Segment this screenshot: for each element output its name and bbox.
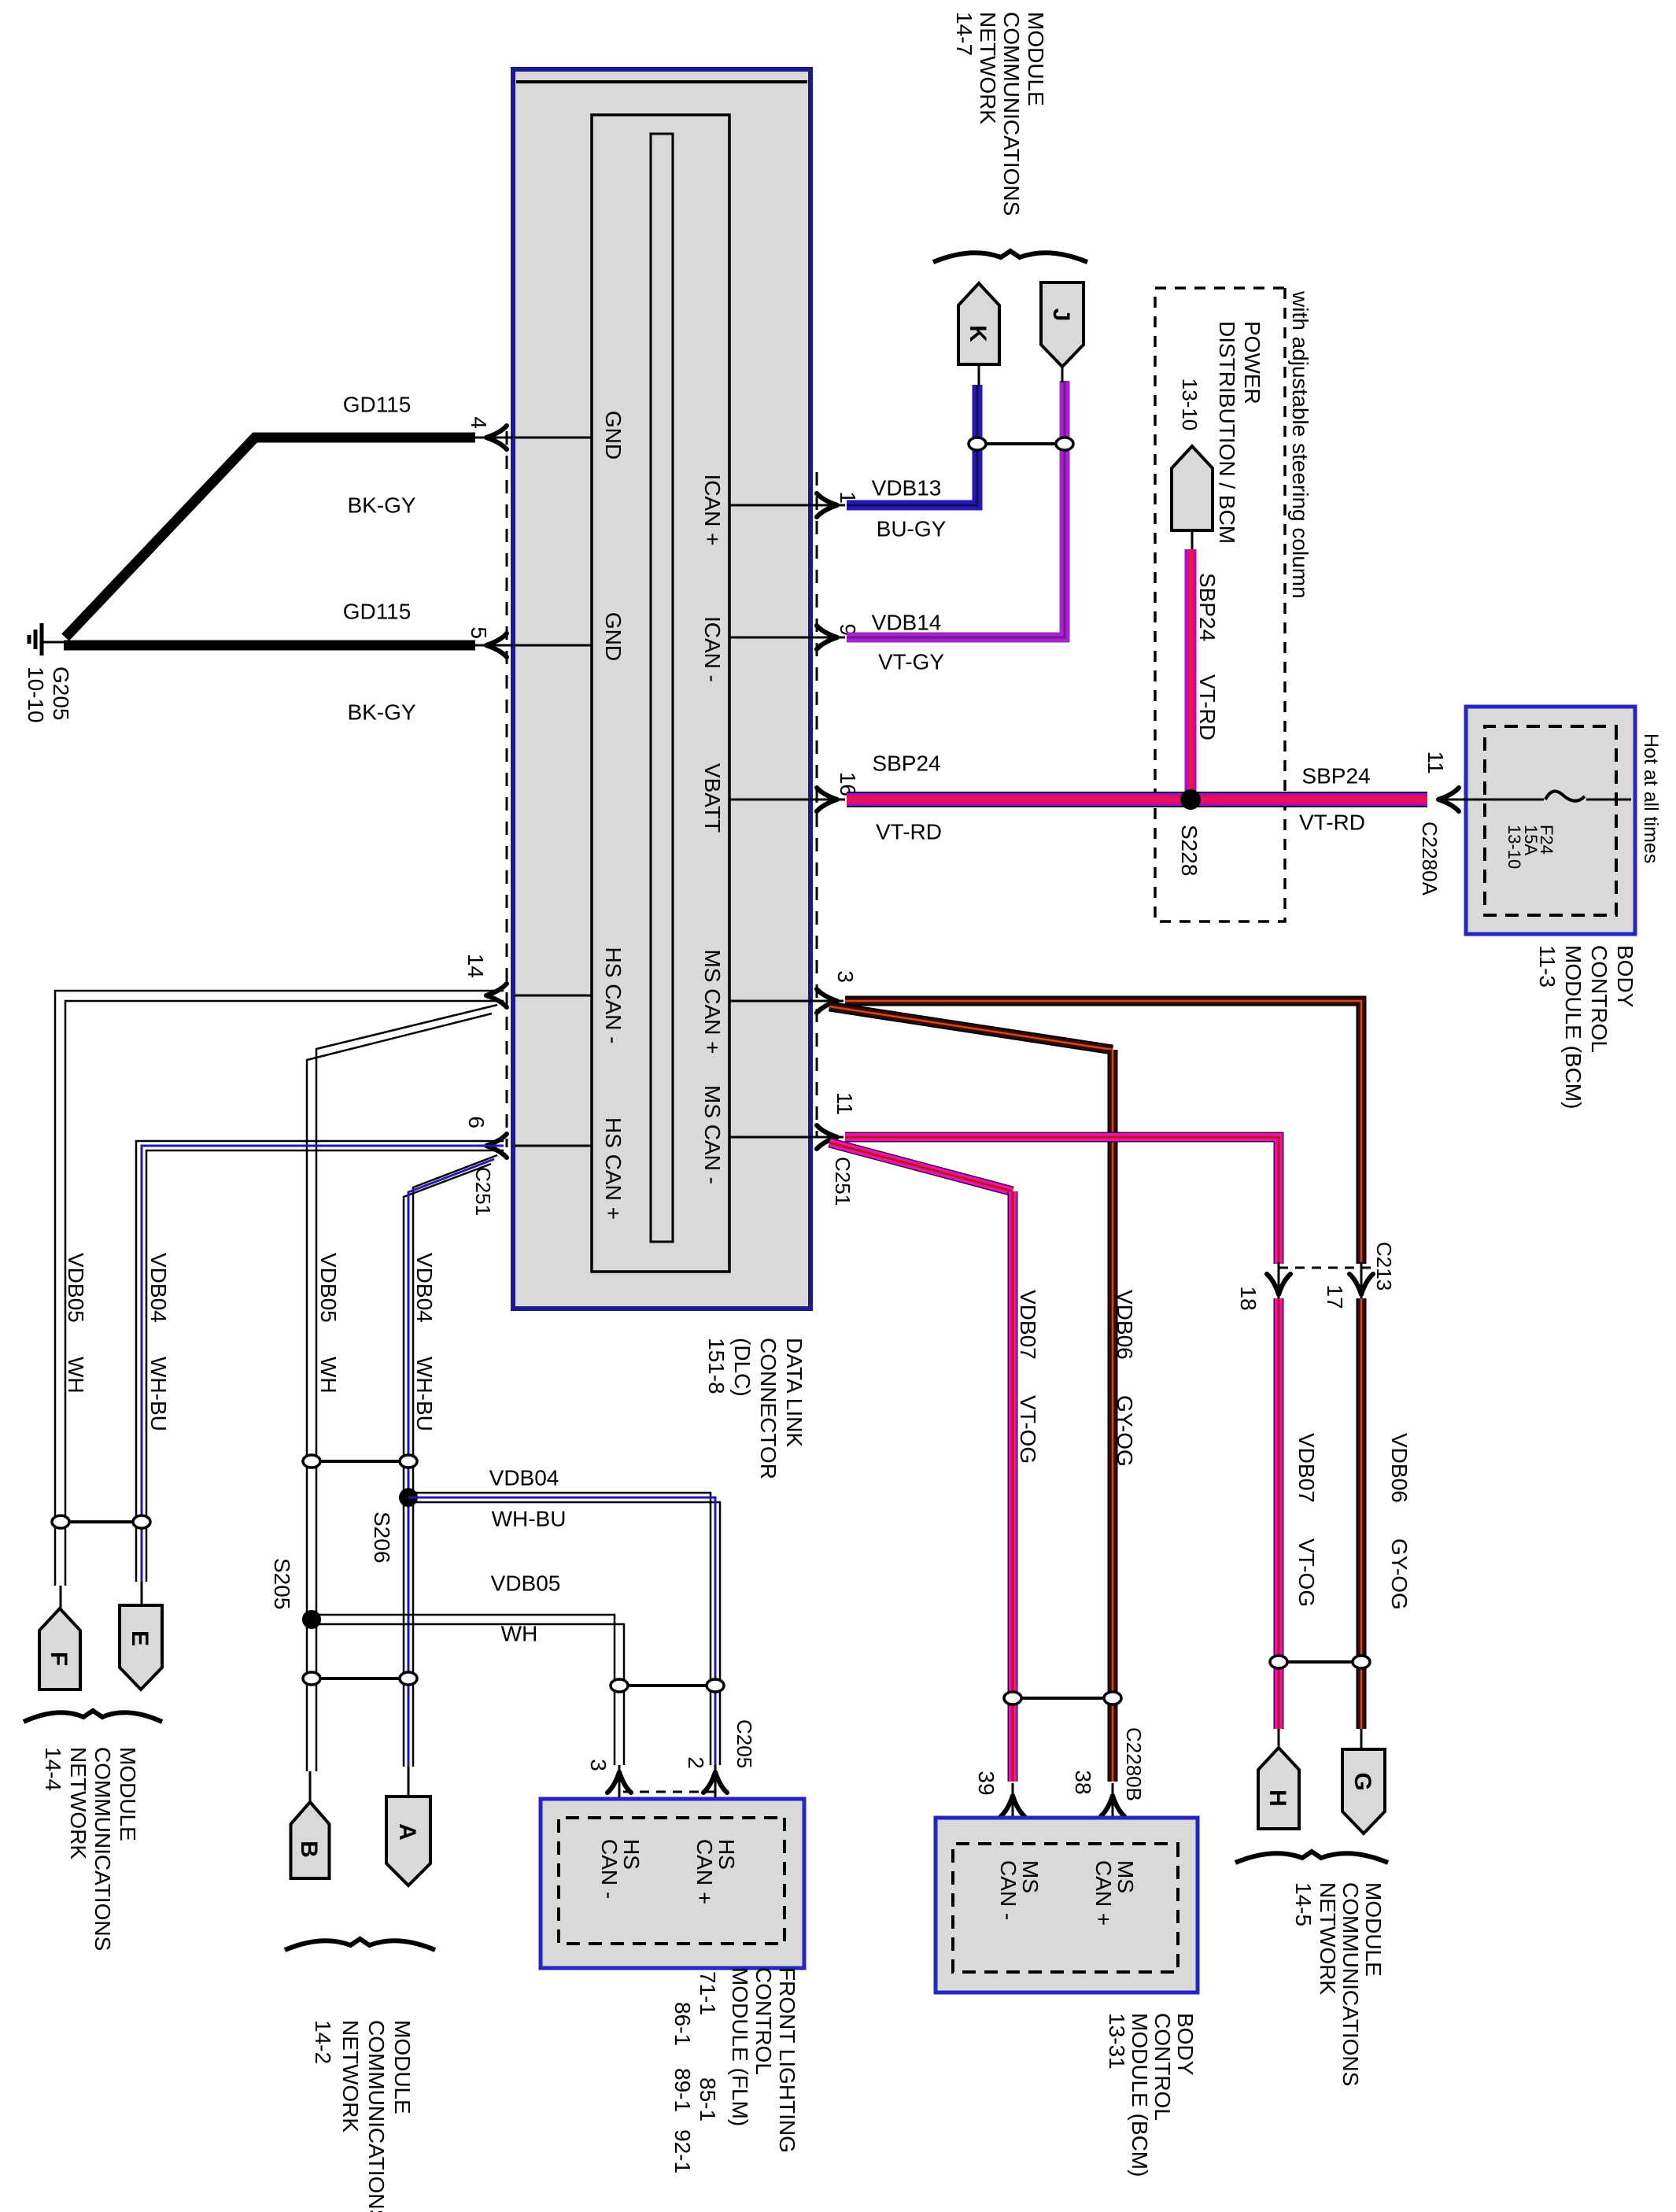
svg-text:14-4: 14-4: [41, 1747, 65, 1791]
module communications network 14-4 label: [41, 1747, 140, 1951]
svg-text:HS: HS: [619, 1839, 644, 1870]
power distribution dashed box: [1155, 288, 1285, 921]
svg-text:GND: GND: [601, 612, 626, 661]
pin number 5: [467, 626, 491, 639]
connector K: [958, 283, 999, 364]
svg-text:VDB05: VDB05: [316, 1253, 341, 1323]
svg-text:POWER: POWER: [1240, 321, 1264, 404]
DLC name label: [704, 1338, 807, 1479]
continuation brace (K/J): [933, 251, 1087, 262]
svg-text:VDB13: VDB13: [872, 475, 942, 500]
svg-text:MS CAN -: MS CAN -: [700, 1085, 725, 1184]
svg-text:S228: S228: [1177, 825, 1202, 876]
svg-text:WH-BU: WH-BU: [492, 1506, 567, 1531]
pin number 38: [1071, 1770, 1095, 1794]
arrow at C2280A: [1438, 788, 1459, 811]
svg-text:MODULE: MODULE: [116, 1747, 140, 1841]
svg-text:WH-BU: WH-BU: [146, 1357, 171, 1431]
svg-text:Hot at all times: Hot at all times: [1640, 733, 1662, 863]
pin number 18 (C213): [1236, 1286, 1261, 1310]
svg-text:BU-GY: BU-GY: [877, 516, 947, 541]
wire VDB13 BU-GY (thin lead at pin 1): [809, 504, 845, 507]
connector label C2280B: [1122, 1727, 1146, 1801]
wire VDB04 WH-BU (pin 6 to A, diagonal): [404, 1155, 497, 1767]
inline connector on F/E wires: [52, 1516, 150, 1528]
svg-text:VDB04: VDB04: [146, 1253, 171, 1323]
arrow BCM pin 38: [1101, 1796, 1124, 1816]
svg-text:VDB07: VDB07: [1016, 1290, 1040, 1360]
svg-text:VT-RD: VT-RD: [1299, 810, 1365, 834]
wire label VT-RD (near DLC): [876, 819, 942, 844]
wire label GY-OG (G path): [1387, 1538, 1412, 1610]
svg-text:13-10: 13-10: [1504, 825, 1524, 869]
connector label C205: [733, 1719, 756, 1768]
splice label S228: [1177, 825, 1202, 876]
svg-text:VT-GY: VT-GY: [878, 649, 944, 674]
svg-text:E: E: [127, 1630, 153, 1646]
pin label ICAN - (pin 9): [700, 616, 725, 682]
lead into BCM pin 39: [1012, 1783, 1014, 1844]
svg-text:NETWORK: NETWORK: [66, 1747, 90, 1859]
pin label VBATT (pin 16): [700, 763, 725, 833]
svg-text:C2280B: C2280B: [1122, 1727, 1146, 1801]
svg-text:S205: S205: [270, 1558, 294, 1609]
svg-text:C2280A: C2280A: [1418, 822, 1442, 896]
continuation brace (H/G): [1235, 1852, 1388, 1863]
svg-text:ICAN -: ICAN -: [700, 616, 725, 682]
splice label S206: [370, 1512, 394, 1563]
pin label GND (pin 5): [601, 612, 626, 661]
svg-text:17: 17: [1323, 1284, 1347, 1309]
inline connector on B/A wires (upper): [303, 1455, 417, 1468]
svg-text:B: B: [296, 1841, 322, 1858]
svg-text:MS CAN +: MS CAN +: [700, 949, 725, 1054]
connector H: [1258, 1748, 1299, 1829]
svg-text:NETWORK: NETWORK: [338, 2020, 363, 2133]
DLC top pin stub at x=810: [729, 637, 809, 639]
wire VDB07 VT-OG branch run: [1008, 1191, 1018, 1782]
wire label VT-RD (branch): [1195, 674, 1220, 740]
wire label WH-BU (E wire): [146, 1357, 171, 1431]
svg-text:SBP24: SBP24: [1195, 573, 1220, 641]
pin arrow bottom x=1265: [486, 984, 507, 1007]
arrow BCM pin 39: [1001, 1796, 1024, 1816]
svg-text:VDB14: VDB14: [872, 610, 942, 634]
svg-text:BK-GY: BK-GY: [347, 493, 415, 517]
svg-text:CAN -: CAN -: [597, 1839, 622, 1899]
wire label GD115 (pin 5): [343, 599, 412, 623]
svg-text:14: 14: [463, 954, 488, 978]
pin number 1: [836, 491, 860, 504]
svg-text:MODULE: MODULE: [1024, 12, 1048, 106]
svg-text:VDB04: VDB04: [412, 1253, 437, 1323]
pin arrow top x=642: [817, 493, 837, 517]
wire VDB14 VT-GY (thin lead at pin 9): [809, 637, 845, 639]
wire label VDB06 (pin 38 branch): [1113, 1290, 1137, 1360]
svg-text:CAN +: CAN +: [692, 1839, 717, 1904]
continuation brace (B/A): [285, 1939, 435, 1950]
svg-text:18: 18: [1236, 1286, 1261, 1310]
svg-text:4: 4: [467, 416, 491, 429]
wire VDB06 GY-OG pin 3 (thin lead): [809, 1000, 844, 1003]
connector G: [1342, 1749, 1385, 1833]
svg-text:NETWORK: NETWORK: [976, 12, 1000, 124]
inline connector on H/G wires: [1270, 1656, 1370, 1668]
lead into FLM pin 3: [618, 1765, 621, 1818]
wire VDB05 WH (S205 branch to FLM pin 3): [312, 1615, 624, 1765]
FLM inner dashed box: [559, 1818, 784, 1944]
svg-text:13-31: 13-31: [1105, 2013, 1129, 2070]
splice label S205: [270, 1558, 294, 1609]
C213 pin 18 through-lead: [1278, 1262, 1280, 1306]
svg-text:DISTRIBUTION / BCM: DISTRIBUTION / BCM: [1215, 321, 1239, 544]
svg-text:CAN -: CAN -: [996, 1860, 1021, 1920]
wire label VDB07 (pin 39 branch): [1016, 1290, 1040, 1360]
svg-text:C251: C251: [831, 1157, 855, 1206]
front lighting control module label: [670, 1967, 799, 2173]
inline connector on FLM branch wires: [611, 1679, 724, 1692]
pin label MS CAN + (pin 3): [700, 949, 725, 1054]
arrow FLM pin 2: [703, 1772, 727, 1793]
inline connector on K/J wires: [969, 438, 1073, 450]
svg-text:38: 38: [1071, 1770, 1095, 1794]
wire label VDB04 (S206 branch): [489, 1465, 559, 1490]
connector J stub: [1061, 364, 1064, 382]
wire label BK-GY (pin 5): [347, 700, 415, 724]
connector F stub: [60, 1586, 62, 1610]
svg-text:2: 2: [684, 1756, 708, 1769]
svg-text:VDB05: VDB05: [64, 1253, 88, 1323]
connector C213 dashed line: [1272, 1267, 1371, 1269]
svg-text:GD115: GD115: [343, 599, 412, 623]
arrow C213 pin 18: [1267, 1274, 1290, 1294]
pin number 4: [467, 416, 491, 429]
DLC top pin stub at x=1272: [729, 1000, 809, 1003]
pin number 2 (C205): [684, 1756, 708, 1769]
svg-text:11-3: 11-3: [1535, 945, 1560, 988]
wire GD115 BK-GY pin 4 (thin lead): [474, 437, 513, 439]
BCM pin label MS CAN +: [1091, 1860, 1138, 1926]
wire VDB07 VT-OG diagonal branch to BCM pin 39: [829, 1143, 1013, 1191]
svg-text:GY-OG: GY-OG: [1387, 1538, 1412, 1610]
svg-text:VDB06: VDB06: [1387, 1433, 1412, 1503]
svg-text:151-8: 151-8: [704, 1338, 729, 1394]
ground lead G205: [42, 641, 67, 644]
connector A stub: [408, 1767, 410, 1798]
svg-text:VDB06: VDB06: [1113, 1290, 1137, 1360]
DLC bottom pin stub at x=556: [515, 437, 592, 439]
wire label VDB07 (H path): [1294, 1433, 1319, 1503]
wire VDB05 WH (pin 14 to B, diagonal): [307, 1005, 497, 1771]
wire label WH-BU (A wire): [412, 1357, 437, 1431]
connector label C251 (bottom): [471, 1167, 495, 1216]
connector label C213: [1372, 1242, 1396, 1291]
pin number 3 (C205): [586, 1759, 611, 1771]
svg-text:G: G: [1349, 1772, 1375, 1790]
splice S228: [1180, 789, 1201, 810]
wire VDB06 GY-OG branch run: [1108, 1050, 1118, 1782]
svg-text:SBP24: SBP24: [1301, 763, 1370, 788]
module communications network 14-2 label: [311, 2020, 415, 2212]
lead into FLM pin 2: [714, 1765, 717, 1818]
DLC bottom pin stub at x=1456: [515, 1145, 592, 1147]
DLC bottom pin stub at x=1265: [515, 995, 592, 997]
svg-text:VT-RD: VT-RD: [1195, 674, 1220, 740]
wire VDB06 GY-OG diagonal branch to BCM pin 38: [829, 1006, 1113, 1050]
wire label VDB14: [872, 610, 942, 634]
svg-text:BODY: BODY: [1173, 2013, 1198, 2076]
arrow FLM pin 3: [607, 1772, 631, 1793]
svg-text:MS: MS: [1018, 1860, 1043, 1893]
svg-text:CONNECTOR: CONNECTOR: [756, 1338, 781, 1479]
wire VDB04 WH-BU (pin 6 to E): [136, 1141, 504, 1582]
wire label VDB05 (S205 branch): [491, 1571, 561, 1595]
DLC inner connector face box: [592, 115, 729, 1272]
svg-text:3: 3: [586, 1759, 611, 1771]
wire label VDB05 (B wire): [316, 1253, 341, 1323]
pin number 11 (C2280A): [1423, 751, 1448, 774]
connector E: [120, 1605, 162, 1689]
BCM 13-31 box: [936, 1818, 1198, 1992]
svg-text:with adjustable steering colum: with adjustable steering column: [1288, 290, 1312, 599]
wire label VT-GY: [878, 649, 944, 674]
svg-text:89-1: 89-1: [670, 2068, 695, 2112]
wire label GD115 (pin 4): [343, 392, 412, 416]
svg-text:VT-RD: VT-RD: [876, 819, 942, 844]
pin number 14: [463, 954, 488, 978]
connector A: [386, 1797, 430, 1885]
svg-text:C251: C251: [471, 1167, 495, 1216]
connector H stub: [1278, 1729, 1280, 1749]
fuse F24 15A: [1545, 792, 1631, 801]
wire into fuse (lower): [1440, 799, 1544, 801]
svg-text:WH: WH: [64, 1357, 88, 1394]
svg-text:BK-GY: BK-GY: [347, 700, 415, 724]
svg-text:MODULE: MODULE: [1361, 1882, 1386, 1977]
BCM fuse inner dashed box: [1485, 726, 1616, 915]
connector label C251 (top): [831, 1157, 855, 1206]
pin arrow bottom x=1456: [486, 1134, 507, 1158]
BCM pin label MS CAN -: [996, 1860, 1043, 1920]
DLC connector key slot: [651, 134, 673, 1242]
svg-text:CONTROL: CONTROL: [1587, 945, 1611, 1053]
svg-text:11: 11: [832, 1092, 857, 1115]
connector G stub: [1360, 1729, 1363, 1751]
wire label SBP24 (near DLC): [872, 751, 940, 775]
wire label BK-GY (pin 4): [347, 493, 415, 517]
inline connector on B/A wires (lower): [303, 1672, 417, 1685]
svg-text:C213: C213: [1372, 1242, 1396, 1291]
power distribution label: [1215, 321, 1264, 544]
wire label SBP24 (branch): [1195, 573, 1220, 641]
svg-text:VBATT: VBATT: [700, 763, 725, 833]
wire label SBP24 (upper): [1301, 763, 1370, 788]
wire label VT-RD (upper): [1299, 810, 1365, 834]
hot at all times note: [1640, 733, 1662, 863]
svg-text:3: 3: [833, 970, 858, 983]
svg-text:VDB05: VDB05: [491, 1571, 561, 1595]
connector B stub: [309, 1771, 312, 1804]
svg-text:CAN +: CAN +: [1091, 1860, 1116, 1926]
pin label MS CAN - (pin 11): [700, 1085, 725, 1184]
svg-text:COMMUNICATIONS: COMMUNICATIONS: [90, 1747, 115, 1951]
connector K stub: [978, 366, 980, 386]
svg-text:COMMUNICATIONS: COMMUNICATIONS: [364, 2020, 389, 2212]
svg-text:(DLC): (DLC): [730, 1338, 755, 1397]
svg-text:CONTROL: CONTROL: [751, 1967, 776, 2075]
svg-text:WH: WH: [501, 1621, 538, 1645]
svg-text:39: 39: [974, 1771, 999, 1795]
wire label VDB05 (F wire): [64, 1253, 88, 1323]
svg-text:11: 11: [1423, 751, 1448, 774]
wire VDB06 GY-OG (C213 to G): [1357, 1298, 1367, 1729]
wire SBP24 VT-RD branch stub: [1191, 529, 1194, 551]
pin number 16: [836, 772, 860, 796]
svg-text:MODULE (BCM): MODULE (BCM): [1128, 2013, 1152, 2177]
svg-text:MODULE: MODULE: [390, 2020, 415, 2114]
pin number 11: [832, 1092, 857, 1115]
svg-text:85-1: 85-1: [696, 2077, 720, 2122]
wire label WH (B wire): [316, 1357, 341, 1394]
svg-text:H: H: [1264, 1789, 1290, 1807]
wire label VT-OG (H path): [1294, 1538, 1319, 1607]
wire SBP24 VT-RD branch: [1185, 549, 1197, 798]
DLC top pin stub at x=1445: [729, 1136, 809, 1139]
svg-text:VDB04: VDB04: [489, 1465, 559, 1490]
svg-text:A: A: [394, 1823, 420, 1841]
pin number 39: [974, 1771, 999, 1795]
wire label GY-OG (pin 38 branch): [1113, 1395, 1137, 1467]
wire label BU-GY: [877, 516, 947, 541]
wire label VT-OG (pin 39 branch): [1016, 1395, 1040, 1464]
ground label G205 10-10: [24, 667, 73, 723]
svg-text:71-1: 71-1: [696, 1971, 720, 2015]
svg-text:G205: G205: [49, 667, 73, 721]
wire VDB13 BU-GY: [847, 385, 977, 505]
svg-text:VDB07: VDB07: [1294, 1433, 1319, 1503]
svg-text:COMMUNICATIONS: COMMUNICATIONS: [1338, 1882, 1363, 2086]
with adjustable steering column note: [1288, 290, 1312, 599]
pin label HS CAN - (pin 14): [601, 947, 626, 1044]
connector label C2280A: [1418, 822, 1442, 896]
svg-text:GND: GND: [601, 411, 626, 460]
pin arrow bottom x=556: [486, 426, 507, 449]
DLC dashed connector line C251 (bottom): [506, 431, 508, 1147]
pin arrow top x=1016: [817, 788, 837, 811]
svg-text:CONTROL: CONTROL: [1150, 2013, 1175, 2121]
BCM fuse box: [1466, 707, 1635, 934]
svg-text:MODULE (FLM): MODULE (FLM): [728, 1967, 752, 2126]
pin arrow top x=810: [817, 626, 837, 649]
pin label GND (pin 4): [601, 411, 626, 460]
pin number 17 (C213): [1323, 1284, 1347, 1309]
wire VDB07 VT-OG (C213 to H): [1274, 1298, 1284, 1729]
svg-text:10-10: 10-10: [24, 667, 48, 723]
svg-text:NETWORK: NETWORK: [1316, 1882, 1340, 1995]
continuation brace (F/E): [24, 1711, 162, 1722]
splice S205: [302, 1610, 321, 1629]
wire label WH (S205 branch): [501, 1621, 538, 1645]
wire label VDB04 (E wire): [146, 1253, 171, 1323]
DLC top pin stub at x=642: [729, 504, 809, 507]
FLM pin label HS CAN -: [597, 1839, 644, 1899]
svg-text:K: K: [965, 325, 991, 342]
inline connector on BCM 13-31 wires: [1004, 1692, 1121, 1704]
svg-text:GY-OG: GY-OG: [1113, 1395, 1137, 1467]
body control module (BCM) 11-3 label: [1535, 945, 1637, 1109]
DLC bottom pin stub at x=820: [515, 644, 592, 647]
lead into BCM pin 38: [1112, 1783, 1114, 1844]
body control module (BCM) 13-31 label: [1105, 2013, 1198, 2177]
splice S206: [399, 1488, 418, 1507]
wire GD115 BK-GY pin 5 (thin lead): [474, 644, 513, 647]
svg-text:DATA LINK: DATA LINK: [782, 1338, 807, 1447]
module communications network 14-5 label: [1291, 1882, 1386, 2086]
svg-text:WH-BU: WH-BU: [412, 1357, 437, 1431]
BCM 13-31 inner dashed box: [953, 1844, 1178, 1972]
wire label VDB04 (A wire): [412, 1253, 437, 1323]
svg-text:COMMUNICATIONS: COMMUNICATIONS: [999, 12, 1024, 216]
svg-text:HS CAN -: HS CAN -: [601, 947, 626, 1044]
svg-text:ICAN +: ICAN +: [700, 474, 725, 545]
data link connector (DLC) box: [513, 69, 810, 1309]
svg-text:MODULE (BCM): MODULE (BCM): [1561, 945, 1586, 1109]
svg-text:BODY: BODY: [1613, 945, 1637, 1008]
connector E stub: [141, 1582, 143, 1607]
svg-text:VT-OG: VT-OG: [1294, 1538, 1319, 1607]
svg-text:C205: C205: [733, 1719, 756, 1768]
wire GD115 BK-GY pin 4 (thick): [65, 438, 475, 637]
pin label HS CAN + (pin 6): [601, 1117, 626, 1220]
connector 13-10 pentagon: [1172, 379, 1213, 530]
svg-text:5: 5: [467, 626, 491, 639]
svg-text:SBP24: SBP24: [872, 751, 940, 775]
connector C2280B dashed line: [1013, 1816, 1113, 1819]
svg-text:F: F: [46, 1652, 72, 1666]
wire VDB06 GY-OG (pin 3 to C213 pin 17): [845, 1001, 1361, 1264]
connector C205 dashed line: [619, 1791, 715, 1793]
svg-text:14-5: 14-5: [1291, 1882, 1316, 1926]
pin arrow top x=1272: [817, 989, 837, 1013]
FLM box: [541, 1799, 804, 1968]
svg-text:6: 6: [464, 1116, 489, 1128]
wire VDB07 VT-OG (pin 11 to C213 pin 18): [845, 1137, 1279, 1264]
svg-text:13-10: 13-10: [1178, 379, 1202, 431]
svg-text:J: J: [1048, 308, 1074, 322]
svg-text:GD115: GD115: [343, 392, 412, 416]
DLC dashed connector line C251 (top): [816, 472, 818, 1137]
ground symbol G205: [29, 623, 42, 655]
svg-text:FRONT LIGHTING: FRONT LIGHTING: [775, 1967, 799, 2153]
pin arrow bottom x=820: [486, 633, 507, 657]
pin arrow top x=1445: [817, 1125, 837, 1149]
wire SBP24 VT-RD main (thin lead at pin 16): [809, 799, 845, 801]
svg-text:MS: MS: [1113, 1860, 1138, 1893]
connector F: [39, 1608, 80, 1689]
svg-text:86-1: 86-1: [670, 2002, 695, 2046]
FLM pin label HS CAN +: [692, 1839, 739, 1904]
pin label ICAN + (pin 1): [700, 474, 725, 545]
wire VDB04 WH-BU (S206 branch to FLM pin 2): [408, 1493, 720, 1765]
svg-text:WH: WH: [316, 1357, 341, 1394]
fuse label F24 15A 13-10: [1504, 825, 1556, 869]
pin number 9: [836, 623, 860, 636]
wire label WH (F wire): [64, 1357, 88, 1394]
C213 pin 17 through-lead: [1360, 1262, 1363, 1306]
svg-text:14-2: 14-2: [311, 2020, 335, 2064]
svg-text:HS CAN +: HS CAN +: [601, 1117, 626, 1220]
arrow C213 pin 17: [1349, 1274, 1373, 1294]
